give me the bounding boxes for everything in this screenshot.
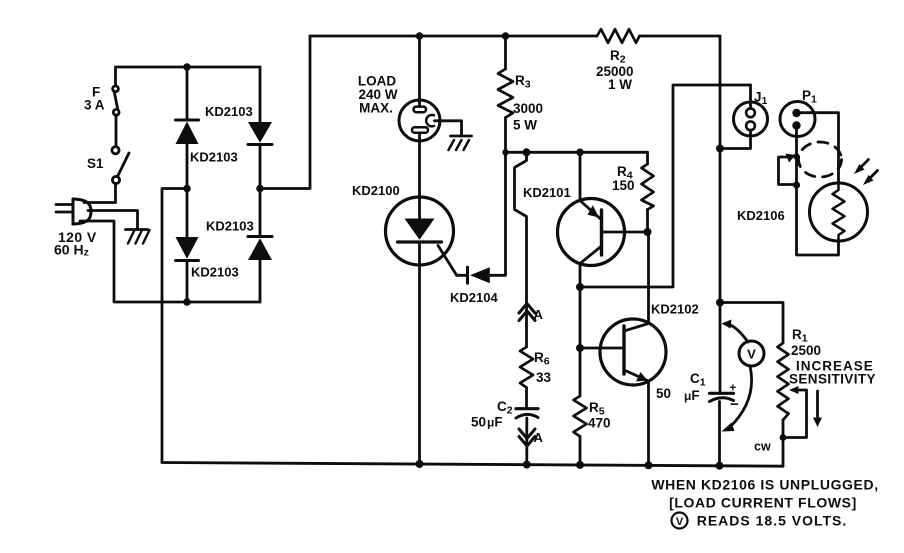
wire P1 bottom pin down left side xyxy=(797,130,839,256)
wire S1 to fuse xyxy=(115,115,118,146)
node dot rail KD2100 xyxy=(416,460,424,468)
svg-text:KD2100: KD2100 xyxy=(352,183,400,198)
wire KD2102 collector to KD2101 base xyxy=(647,232,650,324)
AC plug xyxy=(56,199,91,224)
outlet LOAD socket xyxy=(399,100,440,141)
bottom rail xyxy=(162,463,783,467)
light arrow 2 xyxy=(863,171,878,186)
transistor KD2101 xyxy=(558,152,648,287)
node dot top rail at R3 xyxy=(502,32,510,40)
wire node row y=152 xyxy=(506,151,648,154)
fuse F xyxy=(113,86,120,115)
svg-text:KD2103: KD2103 xyxy=(190,150,238,165)
node dot rect top xyxy=(793,153,799,159)
node dot at R3 bottom xyxy=(502,149,508,155)
bridge left branch wire xyxy=(186,67,189,302)
label F 3 A xyxy=(84,85,105,113)
SCR KD2100 xyxy=(386,197,457,275)
svg-text:J1: J1 xyxy=(754,90,768,108)
svg-text:μF: μF xyxy=(684,388,700,403)
dashed lamp outline xyxy=(799,142,842,177)
main top rail right of R2 xyxy=(640,35,721,38)
svg-text:MAX.: MAX. xyxy=(359,101,393,116)
label R5 470 xyxy=(588,400,611,431)
sensitivity direction arrow xyxy=(813,391,822,427)
wire fuse to bridge top rail xyxy=(116,67,261,86)
svg-text:WHEN KD2106 IS UNPLUGGED,: WHEN KD2106 IS UNPLUGGED, xyxy=(651,477,878,493)
svg-text:V: V xyxy=(747,347,756,362)
node dot rail R5 xyxy=(576,461,584,469)
wire collector node down to KD2102 base and R5 xyxy=(579,287,582,396)
svg-text:470: 470 xyxy=(588,416,611,431)
resistor R3 xyxy=(498,36,513,152)
svg-text:150: 150 xyxy=(612,178,635,193)
node dot at KD2104 feed xyxy=(523,148,531,156)
wire KD2104 anode to R3 node xyxy=(490,152,506,275)
wire R6 to C2 xyxy=(525,388,528,409)
wire top rail corner down right side xyxy=(719,36,722,393)
capacitor C1 xyxy=(710,393,734,401)
node dot KD2101 base / R4 xyxy=(644,228,652,236)
svg-text:R6: R6 xyxy=(534,350,550,368)
node dot KD2101 collector xyxy=(576,283,584,291)
wire plug mid prong to chassis ground xyxy=(88,211,138,230)
test point A (upper) xyxy=(519,304,535,321)
label R6 33 xyxy=(534,350,552,385)
node dot rect bottom xyxy=(793,181,800,188)
node dot top of left bridge branch xyxy=(183,63,191,71)
wire bridge DC+ to top rail xyxy=(260,36,310,189)
wire +V to R1 top xyxy=(720,303,783,344)
chassis ground (plug) xyxy=(126,230,150,244)
label C2 50uF xyxy=(471,399,513,430)
svg-text:33: 33 xyxy=(536,370,552,385)
test point A (lower) xyxy=(519,429,535,446)
wire C1 bottom to rail xyxy=(718,402,721,466)
svg-text:READS 18.5 VOLTS.: READS 18.5 VOLTS. xyxy=(697,513,848,529)
svg-text:3 A: 3 A xyxy=(84,98,105,113)
note text xyxy=(651,477,878,529)
potentiometer R1 xyxy=(778,343,789,466)
wire top rail to load outlet xyxy=(418,36,421,107)
diode KD2103 top-right xyxy=(248,122,272,145)
node dot at KD2101 emitter xyxy=(576,149,584,157)
svg-text:KD2104: KD2104 xyxy=(450,290,498,305)
resistor R6 xyxy=(520,347,533,388)
svg-text:3000: 3000 xyxy=(513,101,543,116)
label 120 V 60 Hz xyxy=(54,229,97,259)
switch S1 xyxy=(112,147,129,184)
resistor R2 xyxy=(597,29,640,43)
node dot rail C1 xyxy=(716,462,724,470)
svg-text:C1: C1 xyxy=(690,371,706,389)
diode KD2103 bottom-right xyxy=(248,237,272,261)
svg-text:1 W: 1 W xyxy=(608,77,632,92)
R1 wiper arrow xyxy=(783,386,807,438)
capacitor C2 xyxy=(516,409,538,418)
resistor R4 xyxy=(642,152,654,232)
svg-text:A: A xyxy=(534,307,544,322)
svg-text:5 W: 5 W xyxy=(513,118,537,133)
diode KD2103 top-left xyxy=(176,120,199,144)
node dot bridge mid-left xyxy=(183,185,191,193)
svg-text:V: V xyxy=(676,516,684,528)
wire outlet to chassis ground xyxy=(435,121,462,135)
wire gate to KD2104 xyxy=(457,274,467,277)
svg-text:A: A xyxy=(534,430,544,445)
svg-text:KD2102: KD2102 xyxy=(651,302,699,317)
svg-text:P1: P1 xyxy=(802,88,817,106)
node dot +V at R1 branch xyxy=(716,299,724,307)
svg-text:S1: S1 xyxy=(87,156,104,171)
diode KD2104 xyxy=(468,267,490,283)
voltmeter V xyxy=(722,320,765,432)
wire KD2102 emitter to bottom rail xyxy=(647,381,650,465)
node dot bridge mid-right xyxy=(256,185,264,193)
jack J1 xyxy=(720,85,768,149)
node dot J1 bottom on +V line xyxy=(716,145,724,153)
bridge right branch wire xyxy=(259,67,262,302)
wire KD2100 cathode to bottom rail xyxy=(418,242,421,464)
node dot bridge bottom left branch xyxy=(183,298,191,306)
svg-text:SENSITIVITY: SENSITIVITY xyxy=(789,372,876,387)
label R1 2500 INCREASE SENSITIVITY xyxy=(789,327,876,387)
svg-text:50μF: 50μF xyxy=(471,415,503,430)
node dot R1 wiper return xyxy=(780,434,787,441)
plug P1 xyxy=(780,102,815,137)
svg-text:R3: R3 xyxy=(515,73,531,91)
label C1 plus minus xyxy=(730,383,740,414)
node dot rail KD2102 emitter xyxy=(645,461,653,469)
svg-text:KD2103: KD2103 xyxy=(205,104,253,119)
svg-text:KD2103: KD2103 xyxy=(191,265,239,280)
svg-text:KD2101: KD2101 xyxy=(523,185,571,200)
svg-text:50: 50 xyxy=(656,386,671,401)
diode KD2103 bottom-left xyxy=(176,237,199,261)
svg-text:R2: R2 xyxy=(610,48,626,66)
svg-text:KD2106: KD2106 xyxy=(737,208,785,223)
wire jogged branch to test point A and R6 xyxy=(515,152,527,347)
wire bridge DC- to bottom rail xyxy=(162,189,187,463)
svg-text:R1: R1 xyxy=(792,327,808,345)
label R2 25000 1 W xyxy=(596,48,634,92)
svg-text:cw: cw xyxy=(754,440,771,454)
chassis ground (outlet) xyxy=(449,136,472,150)
node dot KD2102 base xyxy=(576,344,584,352)
wire C2 to bottom rail xyxy=(525,418,528,465)
photocell KD2106 xyxy=(810,183,868,241)
svg-text:2500: 2500 xyxy=(791,343,821,358)
wire plug bottom prong to bridge bottom row xyxy=(80,221,260,302)
label C1 50uF xyxy=(656,371,706,403)
node dot rail C2 xyxy=(523,461,531,469)
svg-text:[LOAD CURRENT FLOWS]: [LOAD CURRENT FLOWS] xyxy=(669,495,857,511)
wire outlet to KD2100 anode xyxy=(418,134,421,198)
svg-text:+: + xyxy=(730,383,737,395)
label R3 3000 5 W xyxy=(513,73,543,133)
resistor R5 xyxy=(574,396,587,465)
case rectangle KD2106 xyxy=(779,154,797,185)
node dot top rail at load branch xyxy=(416,32,424,40)
wire P1 top pin to photocell top xyxy=(800,113,839,183)
svg-text:−: − xyxy=(730,396,739,413)
svg-text:KD2103: KD2103 xyxy=(206,219,254,234)
main top rail left of R2 xyxy=(310,35,597,38)
wire KD2101 collector to J1 top xyxy=(580,85,751,287)
wire plug to switch S1 xyxy=(84,184,116,203)
circled V in note xyxy=(672,513,688,529)
label LOAD 240 W MAX xyxy=(358,74,398,116)
label R4 150 xyxy=(612,164,635,193)
light arrow 1 xyxy=(854,160,869,175)
transistor KD2102 xyxy=(580,319,666,385)
